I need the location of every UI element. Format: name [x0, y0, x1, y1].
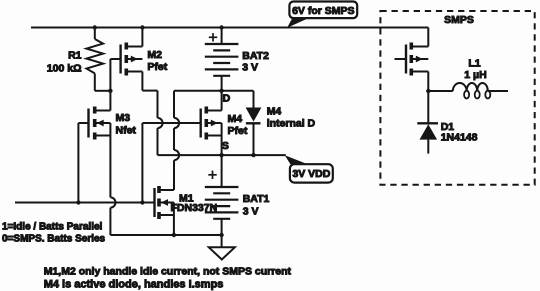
inductor L1	[428, 83, 508, 99]
node junction BAT2 plus	[219, 25, 223, 29]
label R1 value	[47, 50, 82, 75]
label SMPS	[444, 14, 474, 26]
wire control row gate bus	[15, 202, 155, 204]
wire M2 gate	[110, 59, 120, 91]
wire M3 body tie	[109, 123, 111, 136]
svg-text:0=SMPS. Batts Series: 0=SMPS. Batts Series	[2, 234, 106, 245]
svg-text:1 µH: 1 µH	[464, 69, 486, 81]
wire SMPS drain down	[427, 72, 429, 92]
wire M3 drain up	[109, 91, 111, 111]
wire top rail 6V	[31, 27, 428, 29]
svg-text:Pfet: Pfet	[228, 125, 248, 137]
node junction M2 source top	[140, 25, 144, 29]
wire S VDD row	[158, 154, 286, 156]
node junction M4 gate	[140, 200, 144, 204]
label node S	[222, 140, 229, 152]
svg-text:M1,M2 only handle idle current: M1,M2 only handle idle current, not SMPS…	[44, 265, 292, 277]
node junction internal D bottom	[251, 153, 255, 157]
transistor M3 Nfet	[89, 107, 111, 140]
wire M4 source down	[221, 136, 223, 156]
svg-text:SMPS: SMPS	[444, 14, 474, 26]
svg-text:L1: L1	[468, 57, 480, 69]
svg-text:1N4148: 1N4148	[441, 132, 478, 144]
svg-text:M4: M4	[228, 113, 243, 125]
node junction R1 top	[93, 25, 97, 29]
svg-text:Pfet: Pfet	[147, 61, 167, 73]
label M4	[228, 113, 248, 137]
svg-text:M2: M2	[147, 49, 162, 61]
wire M2 body to rail	[141, 28, 143, 47]
svg-text:M4: M4	[267, 105, 282, 117]
node junction switch node	[426, 89, 430, 93]
svg-text:R1: R1	[68, 50, 82, 62]
svg-text:S: S	[222, 140, 229, 152]
node junction S	[219, 153, 223, 157]
label control logic	[2, 221, 106, 244]
battery BAT1	[205, 155, 239, 235]
wire M4 gate row	[142, 123, 200, 203]
svg-text:internal D: internal D	[267, 118, 316, 130]
svg-text:3 V: 3 V	[242, 62, 258, 74]
callout 6V for SMPS	[287, 2, 357, 28]
battery BAT1 plus sign	[208, 171, 216, 179]
label BAT2 3V	[242, 50, 269, 73]
wire node D row	[174, 90, 254, 92]
svg-text:100 kΩ: 100 kΩ	[47, 62, 82, 74]
SMPS dashed box	[380, 11, 534, 185]
node junction M1 source	[172, 233, 176, 237]
wire M1 source down	[173, 215, 175, 235]
svg-text:Nfet: Nfet	[116, 124, 137, 136]
label L1 value	[464, 57, 486, 80]
svg-text:3V VDD: 3V VDD	[292, 168, 330, 180]
label M3	[116, 112, 137, 137]
label BAT1 3V	[243, 193, 270, 218]
wire D to M4 drain	[221, 91, 223, 111]
resistor R1	[87, 28, 111, 91]
node junction R1 bottom	[108, 89, 112, 93]
label notes	[44, 265, 292, 290]
transistor SMPS switch	[406, 43, 428, 76]
svg-text:M4 is active diode, handles I.: M4 is active diode, handles I.smps	[44, 279, 224, 291]
battery BAT2	[205, 28, 239, 91]
wire M4 body tie	[221, 123, 223, 136]
wire M2 drain down	[142, 72, 162, 156]
wire SMPS body to rail	[427, 28, 429, 47]
wire M3 gate	[78, 123, 88, 203]
svg-text:3 V: 3 V	[243, 206, 259, 218]
wire D to M1 drain	[174, 91, 179, 190]
wire M1 body tie	[173, 203, 175, 216]
svg-text:M3: M3	[116, 112, 131, 124]
callout 3V VDD	[285, 155, 333, 182]
label node D	[223, 93, 231, 105]
svg-text:1=Idle / Batts Parallel: 1=Idle / Batts Parallel	[2, 221, 103, 232]
diode M4 internal D	[246, 91, 262, 155]
label D1 value	[441, 121, 478, 144]
svg-text:6V for SMPS: 6V for SMPS	[292, 5, 354, 17]
node junction M3 gate	[76, 200, 80, 204]
ground	[209, 235, 235, 260]
battery BAT2 plus sign	[209, 33, 217, 41]
svg-text:BAT2: BAT2	[242, 50, 269, 62]
diode D1 1N4148	[417, 91, 438, 154]
wire SMPS gate stub	[395, 58, 407, 60]
transistor M2 Pfet	[121, 43, 143, 76]
node junction ground	[219, 233, 223, 237]
label M1	[171, 192, 218, 214]
svg-text:BAT1: BAT1	[243, 193, 270, 205]
svg-text:D: D	[223, 93, 231, 105]
label M4 internal D	[267, 105, 316, 129]
transistor M1 FDN337N	[155, 186, 174, 219]
label M2	[147, 49, 167, 73]
transistor M4 Pfet	[201, 107, 222, 140]
node junction D	[219, 89, 223, 93]
wire M3 source down	[110, 136, 221, 236]
